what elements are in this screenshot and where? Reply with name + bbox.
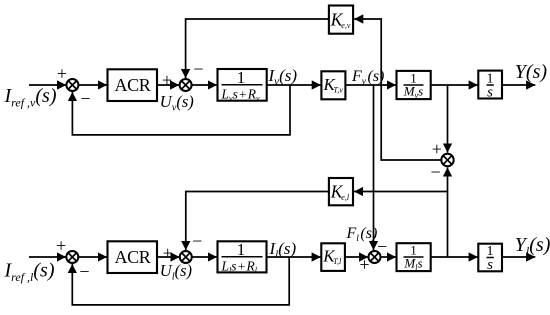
svg-text:Ul(s): Ul(s) bbox=[160, 261, 192, 283]
svg-text:+: + bbox=[56, 236, 66, 256]
svg-text:+: + bbox=[57, 64, 67, 84]
svg-text:Uv(s): Uv(s) bbox=[160, 92, 194, 114]
svg-text:Mvs: Mvs bbox=[403, 84, 423, 101]
svg-text:s: s bbox=[487, 257, 493, 273]
svg-text:−: − bbox=[193, 59, 203, 79]
svg-text:−: − bbox=[192, 231, 202, 251]
svg-text:+: + bbox=[432, 139, 442, 159]
svg-text:KT,v: KT,v bbox=[323, 75, 344, 95]
svg-text:+: + bbox=[163, 243, 173, 263]
svg-text:Mls: Mls bbox=[403, 256, 422, 273]
svg-text:Fl(s): Fl(s) bbox=[346, 225, 378, 244]
svg-text:KT,l: KT,l bbox=[322, 247, 342, 267]
svg-text:Ke,v: Ke,v bbox=[330, 9, 351, 30]
svg-text:Ke,l: Ke,l bbox=[330, 182, 350, 203]
svg-text:Iref ,v(s): Iref ,v(s) bbox=[4, 85, 57, 110]
svg-text:1: 1 bbox=[237, 68, 246, 87]
svg-text:ACR: ACR bbox=[114, 247, 150, 267]
svg-text:−: − bbox=[377, 236, 387, 256]
svg-text:−: − bbox=[80, 88, 90, 108]
svg-text:Fv(s): Fv(s) bbox=[351, 68, 384, 87]
svg-text:Lls+Rl: Lls+Rl bbox=[221, 258, 258, 275]
svg-text:s: s bbox=[487, 84, 493, 100]
svg-text:+: + bbox=[162, 70, 172, 90]
svg-text:Iref ,l(s): Iref ,l(s) bbox=[4, 260, 55, 285]
svg-text:Y(s): Y(s) bbox=[515, 61, 548, 83]
svg-text:+: + bbox=[359, 255, 369, 275]
svg-text:Il(s): Il(s) bbox=[269, 239, 297, 260]
svg-text:Lvs+Rv: Lvs+Rv bbox=[221, 86, 261, 103]
svg-text:ACR: ACR bbox=[114, 75, 150, 95]
svg-text:Yl(s): Yl(s) bbox=[515, 234, 550, 258]
svg-text:−: − bbox=[431, 162, 441, 182]
svg-text:Iv(s): Iv(s) bbox=[268, 66, 298, 88]
svg-text:1: 1 bbox=[237, 240, 246, 259]
svg-text:−: − bbox=[79, 261, 89, 281]
